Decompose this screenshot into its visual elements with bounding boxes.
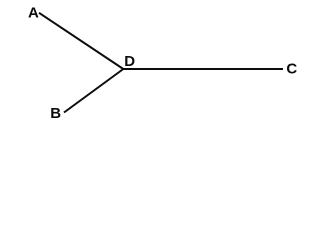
wire segment B-D — [64, 69, 123, 113]
wire segment D-C — [123, 68, 283, 70]
svg-text:D: D — [124, 53, 135, 70]
svg-text:C: C — [286, 60, 297, 77]
wire segment A-D — [39, 13, 123, 69]
svg-text:B: B — [50, 105, 61, 122]
svg-text:A: A — [28, 5, 39, 22]
